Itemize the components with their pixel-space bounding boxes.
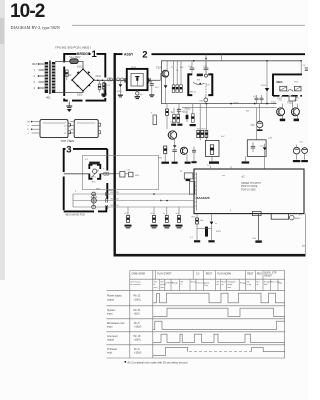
svg-text:6104: 6104	[96, 75, 102, 78]
svg-text:REST: REST	[247, 273, 254, 276]
transformer primary pins	[38, 63, 45, 89]
svg-text:ORDER TPS WITH: ORDER TPS WITH	[241, 183, 261, 185]
svg-text:MET: MET	[32, 62, 38, 66]
microcomputer IC box	[194, 169, 304, 214]
transformer secondary winding	[52, 62, 55, 93]
contact under relay box	[200, 96, 208, 104]
relay B pin labels	[64, 122, 67, 135]
grounded resistor RC	[163, 207, 170, 228]
transistor TS311	[277, 104, 285, 116]
svg-text:+15(V): +15(V)	[134, 326, 141, 329]
resistor R306 with ground	[190, 104, 196, 127]
ground bar under J2	[242, 156, 250, 163]
svg-text:RE 01: RE 01	[190, 92, 197, 94]
header rule	[72, 24, 305, 26]
capacitor C102 below output	[98, 80, 101, 92]
electrolytic C341	[293, 145, 300, 163]
svg-text:VL1 250V: VL1 250V	[70, 56, 81, 59]
neon lamp row2	[91, 194, 97, 203]
svg-text:Pin 22: Pin 22	[134, 295, 141, 298]
grounded resistor RD	[176, 207, 183, 228]
electrolytic C315	[251, 104, 263, 131]
IC bottom attached box	[271, 214, 288, 220]
svg-text:mod.: mod.	[107, 352, 113, 355]
svg-text:output: output	[107, 298, 114, 301]
mains pcb thin outline	[82, 156, 158, 190]
capacitor C202 inline	[117, 78, 124, 81]
relay switch arc	[193, 82, 205, 84]
IC note text block	[241, 183, 261, 191]
svg-text:dC: dC	[242, 175, 245, 179]
plug contact row3	[92, 205, 96, 209]
IC bottom small box B	[252, 211, 261, 215]
svg-text:Ready: Ready	[172, 282, 178, 284]
fuse VL1	[70, 59, 78, 64]
mid bus polyline	[162, 61, 277, 104]
regulator inner element A	[280, 86, 287, 91]
svg-text:6103: 6103	[77, 94, 83, 97]
header sub dividers row2	[160, 279, 278, 290]
svg-text:gated: gated	[204, 281, 209, 284]
component C362	[127, 170, 134, 177]
capacitor C305 under relay box	[260, 95, 264, 104]
main heavy bus vertical	[114, 53, 116, 256]
section 3 border dashed	[64, 149, 108, 212]
ground below bridge	[66, 102, 72, 113]
interconnect wire row 1	[73, 193, 194, 195]
line filter box section 2 outer	[127, 69, 148, 90]
grounded resistor RB	[150, 207, 158, 228]
wire secondary top to fuse	[55, 61, 70, 63]
small electrolytic C320	[183, 111, 188, 123]
row labels column 1	[107, 295, 125, 355]
svg-text:TOP VIEW: TOP VIEW	[61, 139, 75, 143]
left join of wire rows	[72, 194, 74, 207]
plug contact row1	[92, 192, 96, 196]
svg-text:Hi Power: Hi Power	[107, 348, 117, 351]
svg-text:SAA1025: SAA1025	[197, 196, 210, 200]
regulator inner element B	[294, 86, 301, 91]
svg-text:R21 R22: R21 R22	[197, 129, 206, 131]
svg-text:Rdy: Rdy	[279, 282, 282, 284]
svg-text:Ready: Ready	[191, 282, 197, 284]
main heavy bus bottom horizontal	[114, 254, 306, 257]
bridge diode D2	[88, 71, 91, 74]
ground bar under C103	[102, 94, 107, 96]
svg-text:2: 2	[142, 49, 147, 60]
capacitor C332 with ground	[191, 147, 196, 164]
cap on row2	[106, 199, 108, 203]
page subtitle	[9, 24, 55, 30]
capacitor C201 inline	[107, 78, 112, 81]
capacitor inside J2	[251, 142, 255, 152]
waveform row 3	[153, 321, 285, 329]
capacitor C331 with ground	[172, 146, 178, 164]
svg-text:1: 1	[92, 49, 98, 60]
svg-text:Low level: Low level	[107, 335, 118, 338]
svg-text:R63 220: R63 220	[111, 205, 120, 207]
svg-text:input: input	[107, 313, 113, 316]
transistor TS201	[161, 61, 169, 81]
resistor R311 left column	[166, 104, 174, 129]
node dots on mid bus	[206, 103, 208, 105]
resistor trio R303-R305 with grounds	[171, 108, 182, 126]
svg-text:Power output: Power output	[107, 295, 122, 298]
scattered value labels	[75, 85, 303, 241]
capacitor C301 above relay box	[188, 61, 194, 72]
bridge output wire	[94, 79, 115, 81]
right edge drop line	[304, 214, 306, 254]
waveform row 5 solid part	[153, 347, 188, 355]
resistor network R205-R208	[172, 61, 182, 93]
tall pin box left of IC	[189, 182, 194, 195]
relay top-view box A	[40, 120, 70, 138]
mains switch thick bars	[89, 165, 100, 179]
bridge diode labels	[66, 66, 101, 97]
svg-text:RES: RES	[257, 273, 262, 276]
waveform row 5 end part	[252, 347, 285, 351]
svg-text:up: up	[221, 284, 223, 286]
svg-text:+5V: +5V	[299, 142, 303, 144]
bridge rectifier diamond	[72, 69, 94, 91]
switch contact circle	[93, 169, 97, 173]
diode D202 under TS201	[164, 77, 168, 103]
diode D331	[260, 144, 267, 169]
regulator box U301	[273, 74, 298, 96]
svg-text:+15(V): +15(V)	[134, 298, 141, 301]
wire filter to transistor	[148, 79, 161, 81]
transistor labels	[271, 103, 293, 105]
regulator inner arc	[288, 90, 294, 92]
svg-text:NET: NET	[96, 189, 101, 191]
crystal circle	[290, 215, 302, 220]
MAINS dark label	[89, 162, 100, 165]
relay A pin labels	[27, 122, 31, 135]
svg-text:AB05: AB05	[295, 217, 301, 220]
relay A pins	[31, 121, 40, 133]
waveform row 5 dashed part	[189, 351, 252, 353]
svg-text:R62 220: R62 220	[111, 199, 120, 201]
diode D201 to ground	[118, 81, 123, 97]
bridge diode D4	[88, 84, 91, 87]
interconnect wire row 3	[73, 206, 194, 208]
drop from top edge to bus	[221, 54, 223, 61]
bridge corner nodes	[71, 68, 95, 92]
svg-text:PWR ST MODE: PWR ST MODE	[241, 186, 258, 188]
svg-text:6318: 6318	[261, 85, 267, 87]
vertical from bus into regulator	[300, 61, 302, 74]
capacitor C302 above relay box	[203, 61, 208, 72]
cap on row1	[106, 192, 108, 196]
relay contacts	[199, 54, 207, 95]
resistor R101 left of bridge	[65, 70, 68, 80]
resistor R331 with ground	[161, 146, 169, 164]
svg-text:6351: 6351	[216, 231, 222, 233]
svg-text:CRM NORM: CRM NORM	[132, 273, 145, 276]
interconnect wire row 2	[73, 200, 194, 202]
svg-text:FOR US SIDE: FOR US SIDE	[241, 189, 256, 191]
filter bottom contact	[136, 90, 144, 96]
diode D303 on bus drop	[261, 61, 269, 104]
waveform row 1	[153, 293, 285, 303]
svg-text:6201: 6201	[117, 91, 123, 93]
waveform row 4	[153, 334, 285, 342]
resistor pair R323 R324	[205, 130, 208, 137]
capacitor C204	[149, 80, 154, 96]
svg-text:time: time	[161, 286, 165, 289]
svg-text:+15(V): +15(V)	[134, 339, 141, 342]
capacitor pair on switch output	[103, 172, 109, 175]
cap on row3	[106, 205, 108, 209]
section 1 border (dashed)	[64, 54, 105, 101]
resistor network labels	[171, 67, 185, 72]
wire joining cluster	[197, 228, 212, 230]
svg-text:TR 01: TR 01	[131, 67, 138, 69]
svg-text:Pin 5: Pin 5	[134, 322, 140, 325]
wire secondary bottom to bridge bottom	[55, 91, 83, 93]
transformer T401 core	[49, 61, 50, 95]
row labels column 2	[134, 295, 142, 355]
svg-text:AB03: AB03	[185, 108, 192, 111]
svg-text:up: up	[256, 284, 258, 286]
svg-text:REST: REST	[206, 273, 213, 276]
filter inner box	[131, 73, 143, 86]
svg-text:output: output	[107, 339, 114, 342]
transistor TS331 with ground	[180, 147, 190, 164]
svg-text:TS12: TS12	[287, 103, 293, 105]
IC pin rail inner	[196, 173, 198, 211]
TS312 emitter bar	[294, 119, 299, 122]
transistor TS312	[291, 104, 299, 116]
table outer and header borders	[107, 271, 285, 359]
TS311 emitter bar	[280, 119, 285, 122]
svg-text:TPS 901 900 PCB ( AB02 ): TPS 901 900 PCB ( AB02 )	[55, 46, 91, 50]
connector box left edge	[151, 113, 157, 125]
pin connector outside left of IC	[184, 173, 193, 179]
resistor R352 below IC	[194, 214, 200, 243]
header group dividers row1	[156, 271, 264, 280]
svg-text:st.-by: st.-by	[246, 283, 251, 286]
svg-text:std: std	[216, 283, 219, 286]
svg-text:+15(V): +15(V)	[134, 352, 141, 355]
bridge diode D1	[77, 71, 80, 74]
component box J2	[247, 140, 266, 157]
node dots on output wire	[97, 80, 99, 82]
IC pin ticks	[194, 174, 197, 206]
svg-text:TS10: TS10	[233, 103, 239, 105]
ground under filter box	[135, 95, 140, 99]
capacitor C103 below output	[103, 80, 106, 93]
component C361 right of switch	[116, 172, 128, 177]
vertical connector through plugs	[93, 194, 95, 207]
capacitor C351 below IC	[255, 214, 261, 243]
svg-text:time: time	[204, 284, 208, 287]
svg-text:REG: REG	[277, 80, 283, 84]
svg-text:gated: gated	[228, 283, 233, 286]
header row1 labels	[132, 272, 277, 278]
electrolytic dark C352	[205, 227, 208, 237]
wire out of switch right	[100, 173, 113, 175]
svg-text:+0(V): +0(V)	[134, 313, 140, 316]
svg-text:timer format: timer format	[131, 281, 142, 284]
svg-text:System: System	[107, 309, 115, 312]
svg-text:Pin 9: Pin 9	[134, 348, 140, 351]
resistor pair R321 R322	[197, 130, 204, 137]
resistor inside J1	[210, 145, 213, 155]
filter T element	[135, 76, 139, 86]
svg-text:Pin 31: Pin 31	[134, 309, 141, 312]
capacitor C304 under relay box	[253, 95, 259, 104]
svg-text:Start: Start	[264, 283, 268, 286]
right edge capacitor C309	[303, 65, 309, 71]
electrolytic C342	[301, 148, 308, 162]
svg-text:Ready: Ready	[240, 282, 246, 284]
svg-text:Microwave cont: Microwave cont	[107, 322, 125, 325]
svg-text:12V: 12V	[206, 85, 210, 87]
lower parallel bus	[182, 107, 277, 109]
diode D351 below IC	[208, 214, 214, 243]
svg-text:input: input	[107, 326, 113, 329]
resistor R201 to ground	[101, 83, 106, 97]
bridge diode D3	[77, 85, 80, 87]
wire fuse to bridge top	[78, 62, 83, 70]
svg-text:OSC: OSC	[294, 82, 299, 84]
junction dot row1	[153, 193, 155, 195]
svg-text:13V: 13V	[27, 122, 31, 124]
arrow on row2	[160, 200, 163, 202]
section 2 border top dashed	[114, 53, 123, 55]
svg-text:6101: 6101	[77, 66, 83, 69]
svg-text:R61 220: R61 220	[111, 192, 120, 194]
wire row labels	[111, 192, 120, 207]
svg-text:time: time	[228, 286, 232, 289]
vertical to box J2	[256, 108, 258, 140]
below-IC cluster labels	[190, 217, 218, 240]
svg-text:RESET: RESET	[264, 275, 273, 278]
svg-text:Pwr: Pwr	[256, 281, 260, 284]
component under regulator	[289, 95, 296, 108]
svg-text:AB01 MAINS PCB: AB01 MAINS PCB	[65, 213, 85, 216]
svg-text:(N-1) residual time scale with: (N-1) residual time scale with 20 sec de…	[128, 360, 188, 364]
svg-text:3: 3	[66, 145, 71, 156]
page left edge shading	[0, 0, 5, 280]
svg-text:401: 401	[46, 96, 51, 100]
transformer pin labels	[32, 62, 38, 90]
svg-text:on complete: on complete	[131, 283, 141, 286]
wire bridge output through section 2	[116, 79, 127, 81]
relay top-view box B	[74, 120, 100, 138]
relay coil dark label	[197, 74, 203, 77]
component box J1	[205, 140, 219, 156]
svg-text:PLAY/NORM: PLAY/NORM	[217, 273, 231, 276]
IC top pin marks	[211, 166, 232, 169]
svg-text:start: start	[154, 286, 158, 289]
svg-text:TS11: TS11	[271, 103, 277, 105]
svg-text:Pin 18: Pin 18	[134, 335, 141, 338]
dark pin bar left of IC	[186, 179, 191, 181]
svg-text:PLAY/START: PLAY/START	[157, 273, 172, 276]
transformer primary winding	[45, 62, 48, 93]
switch arc	[91, 170, 99, 178]
vertical drops from mid bus	[200, 104, 206, 141]
header row2 labels	[131, 281, 283, 289]
relay box K301	[188, 74, 192, 95]
grounded resistor RA	[124, 207, 132, 228]
long bus y61	[161, 60, 301, 62]
wire into switch left	[64, 173, 90, 175]
waveform row 2	[153, 308, 285, 316]
relay B pins	[70, 122, 75, 134]
regulator pin stubs	[279, 96, 299, 102]
junction dot row2	[166, 200, 168, 202]
svg-text:10-2: 10-2	[10, 1, 45, 22]
node dots on bus	[193, 60, 195, 62]
capacitor C311 left column	[177, 104, 187, 115]
transistor TS301 lower left	[167, 131, 177, 148]
ground bar under J1	[209, 156, 219, 163]
svg-text:ASSY: ASSY	[124, 52, 134, 56]
